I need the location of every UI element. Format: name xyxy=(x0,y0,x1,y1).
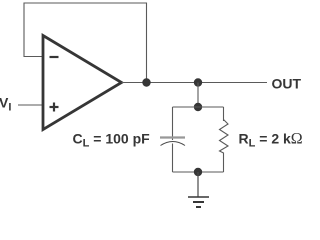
wire feedback loop xyxy=(24,3,147,83)
junction node at feedback/output xyxy=(142,78,150,86)
op-amp U1 xyxy=(43,36,122,130)
wire resistor top lead xyxy=(223,107,225,121)
wire VI input xyxy=(18,104,44,106)
svg-text:OUT: OUT xyxy=(272,76,302,92)
wire output xyxy=(122,82,268,84)
svg-text:VI: VI xyxy=(0,95,11,114)
wire RC top rail xyxy=(173,106,224,108)
wire inverting input stub xyxy=(24,56,44,58)
wire capacitor bottom lead xyxy=(172,144,174,173)
junction node at RC top rail xyxy=(194,103,202,111)
wire ground lead xyxy=(197,172,199,197)
resistor RL xyxy=(220,120,229,154)
capacitor CL xyxy=(160,138,185,146)
svg-text:RL = 2 kΩ: RL = 2 kΩ xyxy=(239,131,303,150)
svg-text:CL = 100 pF: CL = 100 pF xyxy=(73,131,151,150)
wire resistor bottom lead xyxy=(223,153,225,173)
wire RC bottom rail xyxy=(173,171,224,173)
ground xyxy=(188,197,209,207)
junction node at load branch xyxy=(194,78,202,86)
junction node at bottom rail xyxy=(194,168,202,176)
wire down to RC rail xyxy=(197,83,199,108)
wire capacitor top lead xyxy=(172,107,174,140)
